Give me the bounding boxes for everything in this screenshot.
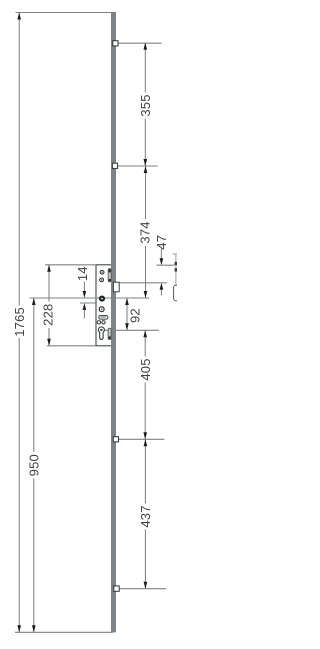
- faceplate slot capsule upper: [108, 269, 111, 282]
- dimension 355: [138, 43, 153, 166]
- twin holes: [97, 321, 105, 324]
- dimension 228: [41, 265, 56, 346]
- svg-text:1765: 1765: [12, 307, 27, 337]
- svg-text:950: 950: [27, 454, 42, 476]
- dimension 374: [137, 166, 152, 298]
- case screw hole upper: [100, 270, 104, 274]
- latch bolt: [113, 282, 119, 292]
- svg-text:405: 405: [138, 358, 153, 380]
- lock gearbox case: [96, 265, 113, 346]
- screw S1: [113, 41, 118, 46]
- screw S4: [114, 586, 119, 591]
- svg-text:374: 374: [137, 221, 152, 243]
- cropped striker fragment at right edge: [173, 254, 180, 301]
- dimension 92: [125, 298, 142, 330]
- dimension 47: [154, 235, 169, 296]
- extension line screw S3: [119, 438, 165, 440]
- extension line cylinder center: [105, 329, 159, 331]
- case screw hole lower: [100, 278, 104, 282]
- extension line follower center: [30, 297, 150, 299]
- svg-text:437: 437: [138, 505, 153, 527]
- euro cylinder keyhole: [98, 327, 104, 340]
- extension line 47 top reference: [157, 264, 175, 266]
- extension line case top: [45, 264, 96, 266]
- extension line latch center: [120, 282, 167, 284]
- svg-text:14: 14: [75, 266, 90, 281]
- dimension 950: [27, 298, 42, 632]
- svg-text:228: 228: [41, 304, 56, 326]
- lower hub: [99, 307, 104, 312]
- extension line case bottom: [47, 345, 96, 347]
- faceplate strip: [111, 12, 116, 632]
- dimension 405: [138, 330, 153, 439]
- screw S2: [112, 163, 117, 168]
- svg-text:92: 92: [128, 308, 143, 323]
- svg-text:47: 47: [154, 235, 169, 250]
- dimension 14: [75, 266, 90, 318]
- screw S3: [113, 437, 118, 442]
- extension line screw S4: [119, 588, 166, 590]
- extension line top of strip: [16, 12, 112, 14]
- extension line screw S1: [118, 42, 162, 44]
- extension line screw S2: [118, 165, 158, 167]
- dimension 1765: [12, 13, 27, 633]
- svg-text:355: 355: [138, 94, 153, 116]
- toothed slot: [99, 315, 108, 319]
- handle follower hub: [99, 296, 104, 301]
- faceplate slot capsule lower: [108, 328, 111, 339]
- extension line bottom of strip: [15, 631, 113, 633]
- dimension 437: [138, 439, 153, 588]
- extension line 14 lower reference: [80, 302, 96, 304]
